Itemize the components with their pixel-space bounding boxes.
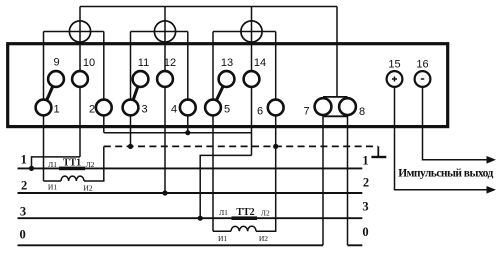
node phase2 tap xyxy=(162,190,167,195)
svg-text:3: 3 xyxy=(362,200,368,214)
svg-text:И1: И1 xyxy=(48,183,57,192)
svg-text:5: 5 xyxy=(224,104,230,116)
wire TT2 secondary right up to dashed dot xyxy=(256,146,276,231)
wire TT1 secondary right to dashed corner xyxy=(84,146,104,181)
node dashed terminal6 xyxy=(273,144,278,149)
plus sign terminal 15 xyxy=(392,77,397,82)
node phase1 tap xyxy=(29,166,34,171)
terminal 5 xyxy=(205,100,221,116)
wire terminal 8 drop to neutral xyxy=(347,107,349,246)
wire terminal 2 drop xyxy=(103,32,105,133)
jumper 11-3 xyxy=(131,79,141,108)
voltage tap circle phase A xyxy=(69,21,90,42)
TT1 primary bar xyxy=(59,167,85,171)
svg-text:И1: И1 xyxy=(218,234,227,243)
svg-text:3: 3 xyxy=(20,205,26,219)
svg-text:6: 6 xyxy=(257,106,263,118)
wire terminal 12 vertical from top bus to phase 2 xyxy=(164,7,166,194)
wire TT1 secondary left xyxy=(44,180,62,182)
voltage tap circle phase B xyxy=(154,21,175,42)
jumper 13-5 xyxy=(213,79,227,108)
svg-text:Л2: Л2 xyxy=(261,209,270,218)
wire voltage bar phase C xyxy=(213,31,276,33)
terminal 13 xyxy=(219,71,235,87)
terminal 3 xyxy=(123,100,139,116)
svg-text:12: 12 xyxy=(164,57,176,69)
svg-text:1: 1 xyxy=(21,153,27,167)
wire top bus xyxy=(80,6,337,8)
node phase3 tap xyxy=(198,216,203,221)
phase line 2 xyxy=(18,192,363,194)
svg-text:0: 0 xyxy=(362,225,368,239)
coil TT2 secondary winding xyxy=(231,226,256,231)
svg-text:И2: И2 xyxy=(259,234,268,243)
wire terminal 4 drop to bus xyxy=(187,32,189,133)
svg-text:10: 10 xyxy=(83,57,95,69)
terminal 11 xyxy=(133,71,149,87)
terminal 6 xyxy=(268,100,284,116)
terminal 8 xyxy=(339,98,356,115)
wire terminal 6 drop to dashed xyxy=(275,32,277,147)
wire terminal 10 link to phase 1 xyxy=(32,157,81,169)
neutral line 0 right segment xyxy=(348,244,363,246)
wire terminal 5 drop to TT2 secondary xyxy=(212,32,214,232)
svg-text:15: 15 xyxy=(388,58,400,70)
svg-text:И2: И2 xyxy=(83,184,92,193)
jumper 7-8 link bottom xyxy=(323,115,348,117)
minus sign terminal 16 xyxy=(421,78,425,80)
terminal 2 xyxy=(96,100,112,116)
svg-text:Импульсный выход: Импульсный выход xyxy=(398,168,493,180)
jumper 7-8 link top xyxy=(323,96,348,98)
svg-text:14: 14 xyxy=(254,57,266,69)
svg-text:1: 1 xyxy=(53,104,59,116)
svg-text:2: 2 xyxy=(363,176,369,190)
voltage tap circle phase C xyxy=(241,21,262,42)
terminal block xyxy=(8,44,448,127)
terminal 15 xyxy=(387,71,403,87)
svg-text:1: 1 xyxy=(362,154,368,168)
arrow pulse lower xyxy=(487,186,497,194)
terminal 12 xyxy=(157,71,173,87)
terminal 10 xyxy=(72,71,88,87)
svg-text:Л1: Л1 xyxy=(219,208,228,217)
wire terminal 15 to lower pulse arrow xyxy=(395,79,488,190)
svg-text:13: 13 xyxy=(221,57,233,69)
terminal 7 xyxy=(315,98,332,115)
svg-text:8: 8 xyxy=(359,106,365,118)
wire terminal 14 link to phase 3 xyxy=(200,155,251,218)
wire terminal 7 drop to neutral xyxy=(322,107,324,246)
phase line 3 xyxy=(18,217,363,219)
svg-text:11: 11 xyxy=(138,57,149,69)
ground symbol xyxy=(371,146,386,157)
svg-text:2: 2 xyxy=(21,179,27,193)
terminal 14 xyxy=(244,71,260,87)
TT2 primary bar xyxy=(232,216,258,220)
jumper 9-1 xyxy=(44,79,57,108)
svg-text:2: 2 xyxy=(89,104,95,116)
dashed ground wire from CT secondaries xyxy=(104,145,378,147)
wire terminal 14 vertical from top bus xyxy=(251,7,253,156)
svg-text:Л2: Л2 xyxy=(86,160,95,169)
svg-text:0: 0 xyxy=(19,227,25,241)
node bus terminal4 xyxy=(185,130,190,135)
wire voltage bar phase B xyxy=(131,31,188,33)
wire voltage bar phase A xyxy=(44,31,104,33)
wire top bus drop to jumper 7-8 xyxy=(336,7,338,98)
phase line 1 xyxy=(18,167,363,169)
wire bus below block xyxy=(104,132,252,134)
wire terminal 3 drop to dashed xyxy=(130,32,132,147)
coil TT1 secondary winding xyxy=(61,176,84,181)
arrow pulse upper xyxy=(487,156,497,164)
neutral line 0 left segment xyxy=(18,244,324,246)
wire terminal 16 to upper pulse arrow xyxy=(423,79,488,160)
svg-text:3: 3 xyxy=(141,104,147,116)
svg-text:ТТ2: ТТ2 xyxy=(236,207,254,218)
svg-text:Л1: Л1 xyxy=(48,160,57,169)
svg-text:9: 9 xyxy=(53,57,59,69)
svg-text:7: 7 xyxy=(303,106,309,118)
node dashed terminal3 xyxy=(128,144,133,149)
svg-text:4: 4 xyxy=(171,104,177,116)
terminal 1 xyxy=(36,100,52,116)
svg-text:16: 16 xyxy=(416,58,428,70)
wire TT2 secondary left xyxy=(213,230,231,232)
terminal 16 xyxy=(415,71,431,87)
svg-text:ТТ1: ТТ1 xyxy=(63,158,81,169)
wire terminal 10 vertical from top bus xyxy=(79,7,81,157)
terminal 9 xyxy=(48,71,64,87)
terminal 4 xyxy=(180,100,196,116)
wire terminal 1 drop to TT1 secondary xyxy=(43,32,45,182)
